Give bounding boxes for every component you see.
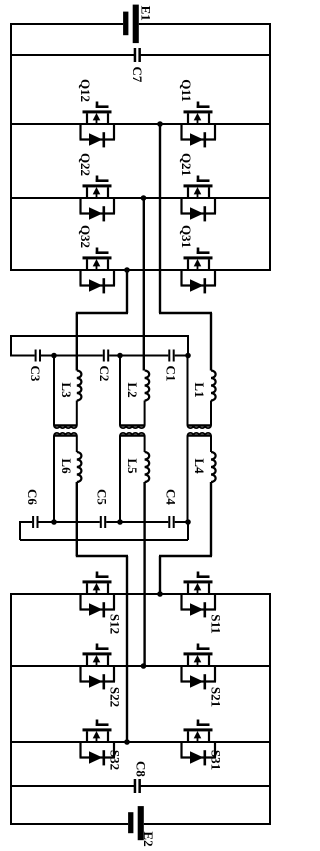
node phase3 junction bbox=[124, 267, 130, 273]
label Q12 bbox=[78, 79, 93, 102]
svg-text:E1: E1 bbox=[138, 6, 153, 21]
svg-text:S31: S31 bbox=[209, 750, 224, 770]
inductor L5 bbox=[145, 436, 150, 483]
node S phase2 junction bbox=[141, 663, 147, 669]
svg-text:C2: C2 bbox=[97, 366, 112, 382]
label S31 bbox=[209, 750, 224, 770]
node C5 rail junction bbox=[117, 519, 123, 525]
capacitor C1 bbox=[168, 350, 174, 362]
transistor Q31 bbox=[181, 248, 217, 294]
label C1 bbox=[164, 366, 179, 382]
capacitor C3 bbox=[35, 350, 41, 362]
transistor S22 bbox=[80, 644, 116, 690]
transistor S11 bbox=[181, 572, 217, 618]
wire L1 tail bbox=[210, 401, 212, 426]
wire S row1 bbox=[11, 593, 270, 595]
capacitor C5 bbox=[100, 516, 106, 528]
wire rail top seg2 bbox=[41, 355, 103, 357]
label E2 bbox=[141, 831, 156, 846]
label C6 bbox=[25, 489, 40, 505]
label Q21 bbox=[179, 153, 194, 176]
wire bottom box left vertical bbox=[10, 593, 12, 825]
inductor L3 bbox=[77, 371, 82, 401]
wire ring top bbox=[11, 335, 188, 357]
label S12 bbox=[108, 614, 123, 634]
capacitor C8 bbox=[134, 779, 141, 793]
svg-text:S22: S22 bbox=[108, 687, 123, 707]
svg-text:C6: C6 bbox=[25, 489, 40, 505]
svg-text:C7: C7 bbox=[130, 67, 145, 83]
svg-text:C5: C5 bbox=[95, 489, 110, 505]
node phase1 junction bbox=[157, 121, 163, 127]
label S11 bbox=[209, 614, 224, 634]
svg-text:C3: C3 bbox=[28, 366, 43, 382]
wire S row3 bbox=[11, 741, 270, 743]
node C4 rail junction bbox=[185, 519, 191, 525]
wire L3 staple bbox=[54, 356, 77, 429]
label S32 bbox=[108, 750, 123, 770]
wire Q row2 bbox=[11, 197, 270, 199]
transistor S12 bbox=[80, 572, 116, 618]
svg-text:L5: L5 bbox=[125, 458, 140, 474]
svg-text:Q22: Q22 bbox=[78, 153, 93, 176]
wire L4 staple bbox=[188, 433, 212, 522]
transistor Q21 bbox=[181, 176, 217, 222]
wire top box left vertical bbox=[10, 23, 12, 271]
wire phase1 to S bbox=[159, 482, 212, 594]
wire top box right vertical bbox=[269, 23, 271, 271]
node C1 rail junction bbox=[185, 353, 191, 359]
wire Q row1 bbox=[11, 123, 270, 125]
label C8 bbox=[134, 761, 149, 777]
svg-text:C1: C1 bbox=[164, 366, 179, 382]
wire C8 line bbox=[11, 785, 270, 787]
wire L6 staple bbox=[54, 433, 77, 522]
label C3 bbox=[28, 366, 43, 382]
wire rail bottom seg2 bbox=[39, 521, 100, 523]
svg-text:C4: C4 bbox=[164, 489, 179, 505]
wire bottom box right vertical bbox=[269, 593, 271, 825]
transistor S21 bbox=[181, 644, 217, 690]
svg-text:Q11: Q11 bbox=[179, 79, 194, 101]
wire rail top seg4 bbox=[175, 355, 188, 357]
wire Q row3 bbox=[11, 269, 270, 271]
inductor L1 bbox=[211, 371, 216, 401]
node C3 rail junction bbox=[51, 353, 57, 359]
wire phase3 down bbox=[76, 270, 128, 371]
svg-text:Q12: Q12 bbox=[78, 79, 93, 102]
label S21 bbox=[209, 687, 224, 707]
wire E2 line bbox=[11, 823, 270, 825]
capacitor C6 bbox=[32, 516, 38, 528]
svg-text:L2: L2 bbox=[125, 382, 140, 397]
wire phase1 down bbox=[159, 124, 212, 371]
svg-text:E2: E2 bbox=[141, 831, 156, 846]
label L1 bbox=[192, 382, 207, 397]
label Q11 bbox=[179, 79, 194, 101]
wire rail top seg1 bbox=[11, 355, 35, 357]
svg-text:C8: C8 bbox=[134, 761, 149, 777]
wire phase2 to S bbox=[143, 482, 145, 666]
label C5 bbox=[95, 489, 110, 505]
transistor S32 bbox=[80, 720, 116, 766]
svg-text:Q32: Q32 bbox=[78, 225, 93, 248]
inductor L6 bbox=[77, 436, 82, 483]
svg-text:L3: L3 bbox=[59, 382, 74, 398]
wire rail top seg3 bbox=[109, 355, 168, 357]
transistor Q22 bbox=[80, 176, 116, 222]
capacitor C4 bbox=[168, 516, 174, 528]
transistor Q12 bbox=[80, 102, 116, 148]
svg-text:S21: S21 bbox=[209, 687, 224, 707]
node S phase1 junction bbox=[157, 591, 163, 597]
label Q32 bbox=[78, 225, 93, 248]
label E1 bbox=[138, 6, 153, 21]
svg-text:S11: S11 bbox=[209, 614, 224, 634]
wire L5 staple bbox=[120, 433, 145, 522]
label S22 bbox=[108, 687, 123, 707]
label Q31 bbox=[179, 225, 194, 248]
svg-text:L1: L1 bbox=[192, 382, 207, 397]
wire rail bottom seg4 bbox=[175, 521, 188, 523]
inductor L2 bbox=[145, 371, 150, 401]
transistor Q32 bbox=[80, 248, 116, 294]
wire rail bottom seg1 bbox=[20, 521, 32, 523]
label C7 bbox=[130, 67, 145, 83]
wire C7 line bbox=[11, 54, 270, 56]
wire L2 tail bbox=[144, 401, 146, 426]
battery E1 bbox=[123, 5, 139, 44]
label L3 bbox=[59, 382, 74, 398]
svg-text:L4: L4 bbox=[192, 458, 207, 474]
inductor L4 bbox=[211, 436, 216, 483]
svg-text:Q21: Q21 bbox=[179, 153, 194, 176]
label L5 bbox=[125, 458, 140, 474]
transistor S31 bbox=[181, 720, 217, 766]
wire phase3 to S bbox=[76, 482, 128, 742]
node phase2 junction bbox=[141, 195, 147, 201]
battery E2 bbox=[128, 806, 144, 840]
capacitor C7 bbox=[134, 48, 141, 62]
transistor Q11 bbox=[181, 102, 217, 148]
wire L3 tail bbox=[76, 401, 78, 426]
label C4 bbox=[164, 489, 179, 505]
node S phase3 junction bbox=[124, 739, 130, 745]
wire E1 top line bbox=[11, 23, 270, 25]
label L6 bbox=[59, 458, 74, 474]
wire ring bottom bbox=[20, 521, 188, 540]
label Q22 bbox=[78, 153, 93, 176]
svg-text:S12: S12 bbox=[108, 614, 123, 634]
svg-text:S32: S32 bbox=[108, 750, 123, 770]
wire phase2 down bbox=[143, 198, 145, 371]
label L2 bbox=[125, 382, 140, 397]
capacitor C2 bbox=[103, 350, 109, 362]
wire L2 staple bbox=[120, 356, 145, 429]
label C2 bbox=[97, 366, 112, 382]
wire rail bottom seg3 bbox=[106, 521, 168, 523]
wire S row2 bbox=[11, 665, 270, 667]
wire L1 staple bbox=[188, 356, 212, 429]
node C6 rail junction bbox=[51, 519, 57, 525]
svg-text:L6: L6 bbox=[59, 458, 74, 474]
svg-text:Q31: Q31 bbox=[179, 225, 194, 248]
node C2 rail junction bbox=[117, 353, 123, 359]
label L4 bbox=[192, 458, 207, 474]
